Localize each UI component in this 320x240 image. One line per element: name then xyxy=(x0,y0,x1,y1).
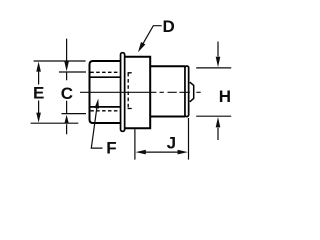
svg-text:E: E xyxy=(33,84,44,103)
svg-text:C: C xyxy=(61,84,73,103)
svg-text:D: D xyxy=(162,17,174,36)
svg-text:F: F xyxy=(106,139,116,158)
svg-text:J: J xyxy=(167,134,176,153)
svg-text:H: H xyxy=(219,87,231,106)
